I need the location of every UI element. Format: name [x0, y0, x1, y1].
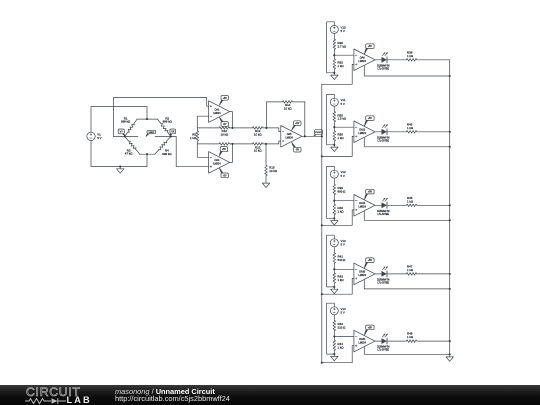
svg-text:LM324: LM324: [359, 206, 367, 209]
svg-text:+5V: +5V: [368, 46, 373, 48]
svg-text:LTL-307EE: LTL-307EE: [377, 140, 389, 142]
svg-text:5 V: 5 V: [341, 174, 345, 178]
svg-text:+5V: +5V: [222, 149, 227, 151]
svg-text:210 Ω: 210 Ω: [338, 326, 347, 330]
svg-text:LM324: LM324: [213, 163, 221, 166]
svg-text:LTL-307EE: LTL-307EE: [377, 214, 389, 216]
svg-text:+5V: +5V: [368, 118, 373, 120]
svg-text:+5V: +5V: [368, 327, 373, 329]
svg-text:5 V: 5 V: [341, 310, 345, 314]
svg-text:540 Ω: 540 Ω: [338, 258, 347, 262]
svg-text:LM324: LM324: [359, 274, 367, 277]
svg-text:1 kΩ: 1 kΩ: [190, 136, 197, 140]
svg-text:890 Ω: 890 Ω: [338, 189, 347, 193]
svg-text:1 kΩ: 1 kΩ: [407, 126, 414, 130]
svg-text:47 kΩ: 47 kΩ: [125, 152, 133, 156]
svg-text:+5V: +5V: [223, 98, 228, 100]
svg-text:LTL-307EE: LTL-307EE: [377, 283, 389, 285]
svg-text:LM324: LM324: [359, 341, 367, 344]
svg-text:+5V: +5V: [295, 123, 300, 125]
svg-text:D1/5MM-TN: D1/5MM-TN: [377, 65, 390, 67]
svg-text:-5V: -5V: [223, 124, 227, 126]
svg-text:D1/5MM-TN: D1/5MM-TN: [377, 211, 390, 213]
svg-text:+5V: +5V: [368, 260, 373, 262]
svg-text:10 kΩ: 10 kΩ: [284, 107, 292, 111]
svg-text:1 kΩ: 1 kΩ: [338, 345, 345, 349]
svg-text:-5V: -5V: [223, 175, 227, 177]
svg-text:999 kΩ: 999 kΩ: [162, 152, 172, 156]
svg-text:LTL-307EE: LTL-307EE: [377, 68, 389, 70]
svg-text:1.5 kΩ: 1.5 kΩ: [338, 117, 347, 121]
svg-text:+5V: +5V: [368, 192, 373, 194]
svg-text:5 V: 5 V: [341, 102, 345, 106]
svg-text:1 kΩ: 1 kΩ: [407, 335, 414, 339]
svg-text:10 kΩ: 10 kΩ: [254, 149, 262, 153]
svg-text:VREF: VREF: [148, 132, 154, 134]
svg-text:VY: VY: [120, 130, 124, 133]
svg-text:10 kΩ: 10 kΩ: [269, 169, 277, 173]
svg-text:5 V: 5 V: [341, 242, 345, 246]
svg-text:VX: VX: [171, 130, 175, 133]
svg-text:LM324: LM324: [213, 112, 221, 115]
svg-text:D1/5MM-TN: D1/5MM-TN: [377, 137, 390, 139]
svg-text:1 kΩ: 1 kΩ: [338, 64, 345, 68]
svg-text:LM324: LM324: [285, 137, 293, 140]
svg-text:5 V: 5 V: [341, 29, 345, 33]
svg-text:-5V: -5V: [296, 150, 300, 152]
svg-text:2.7 kΩ: 2.7 kΩ: [338, 44, 347, 48]
svg-text:999 kΩ: 999 kΩ: [121, 120, 131, 124]
svg-text:D1/5MM-TN: D1/5MM-TN: [377, 347, 390, 349]
svg-text:LM324: LM324: [359, 132, 367, 135]
svg-text:1 kΩ: 1 kΩ: [338, 136, 345, 140]
svg-text:999 kΩ: 999 kΩ: [163, 120, 173, 124]
svg-text:10 kΩ: 10 kΩ: [254, 133, 262, 137]
svg-text:D1/5MM-TN: D1/5MM-TN: [377, 280, 390, 282]
svg-text:1 kΩ: 1 kΩ: [407, 199, 414, 203]
svg-text:LM324: LM324: [359, 60, 367, 63]
svg-text:5 V: 5 V: [97, 136, 101, 140]
svg-text:LTL-307EE: LTL-307EE: [377, 350, 389, 352]
svg-text:10 kΩ: 10 kΩ: [220, 133, 228, 137]
svg-text:1 kΩ: 1 kΩ: [407, 54, 414, 58]
svg-text:1 kΩ: 1 kΩ: [407, 268, 414, 272]
svg-text:1 kΩ: 1 kΩ: [338, 210, 345, 214]
svg-text:1 kΩ: 1 kΩ: [338, 278, 345, 282]
